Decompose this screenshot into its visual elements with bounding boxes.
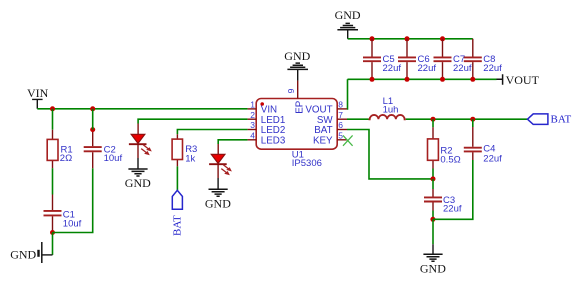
svg-text:GND: GND	[205, 196, 231, 210]
svg-text:GND: GND	[10, 248, 36, 262]
wire C4 bottom to C3 junction	[433, 160, 473, 219]
capacitor C2	[84, 130, 123, 169]
junction C5 top	[370, 36, 375, 41]
wire junction to ground bottom right	[432, 219, 434, 244]
svg-text:GND: GND	[284, 49, 310, 63]
svg-text:BAT: BAT	[551, 114, 572, 126]
capacitor C6	[398, 39, 436, 80]
capacitor C8	[464, 39, 502, 80]
svg-text:VOUT: VOUT	[506, 73, 540, 87]
no-connect X on KEY	[343, 135, 353, 145]
wire bottom capacitor rail	[348, 78, 497, 80]
junction R1/VIN rail	[50, 106, 55, 111]
svg-text:2Ω: 2Ω	[60, 153, 72, 164]
pin 6 BAT	[314, 120, 347, 136]
power flag GND left	[10, 242, 52, 263]
port BAT (right)	[528, 114, 572, 126]
svg-text:VIN: VIN	[27, 86, 49, 100]
svg-text:1uh: 1uh	[383, 104, 399, 115]
wire LED1 to pin2	[138, 119, 248, 123]
wire top capacitor rail	[348, 38, 473, 40]
svg-text:GND: GND	[125, 176, 151, 190]
svg-text:GND: GND	[420, 261, 446, 275]
svg-text:2: 2	[250, 110, 255, 120]
svg-text:IP5306: IP5306	[292, 158, 322, 169]
pin 7 SW	[317, 110, 347, 126]
svg-text:22uf: 22uf	[453, 63, 472, 74]
svg-text:0.5Ω: 0.5Ω	[440, 155, 460, 166]
wire SW pin to L1	[347, 118, 369, 120]
svg-text:KEY: KEY	[313, 135, 333, 146]
junction C3 bottom	[430, 217, 435, 222]
junction R2 top	[431, 117, 436, 122]
port BAT (bottom)	[172, 190, 184, 236]
ground bottom right	[420, 244, 446, 275]
svg-text:5: 5	[338, 131, 343, 141]
ground above EP	[284, 49, 310, 81]
wire BAT pin to R2 bottom junction	[347, 130, 433, 179]
svg-text:LED3: LED3	[261, 135, 286, 146]
svg-text:10uf: 10uf	[63, 218, 82, 229]
wire C1 junction down	[52, 233, 54, 255]
junction C5 bottom	[370, 77, 375, 82]
svg-text:10uf: 10uf	[104, 153, 123, 164]
svg-text:7: 7	[338, 110, 343, 120]
junction C4 top	[470, 117, 475, 122]
svg-text:8: 8	[338, 100, 343, 110]
svg-text:22uf: 22uf	[483, 153, 502, 164]
wire C2 lead upper green	[92, 109, 94, 130]
capacitor C4	[464, 119, 502, 164]
svg-text:9: 9	[286, 88, 296, 93]
ground below LED D1	[125, 158, 151, 190]
wire L1 to BAT port	[406, 118, 528, 120]
svg-text:22uf: 22uf	[443, 204, 462, 215]
wire C3 bottom	[432, 211, 434, 220]
svg-text:EP: EP	[294, 100, 305, 114]
wire LED2 to pin4	[218, 140, 247, 144]
wire R1 top lead	[52, 109, 54, 130]
wire R3 to BAT port	[176, 166, 178, 190]
pin 3 LED2	[248, 120, 286, 136]
svg-text:4: 4	[250, 131, 255, 141]
junction C7 top	[440, 36, 445, 41]
svg-text:3: 3	[250, 120, 255, 130]
wire VOUT pin riser	[346, 79, 349, 109]
svg-text:22uf: 22uf	[383, 63, 402, 74]
junction C7 bottom	[440, 77, 445, 82]
junction C6 top	[405, 36, 410, 41]
wire R1 to C1	[52, 168, 54, 194]
wire R2 bottom	[432, 169, 434, 179]
ground below LED D2	[205, 178, 231, 210]
pin 1 VIN	[248, 100, 278, 116]
op-amp U1 IP5306 body	[256, 99, 337, 170]
junction C1 bottom	[50, 230, 55, 235]
wire R3 to pin3	[177, 130, 247, 135]
wire VIN rail	[37, 108, 247, 110]
capacitor C5	[363, 39, 401, 80]
svg-text:GND: GND	[335, 8, 361, 22]
junction R2 bottom	[431, 176, 436, 181]
pin 5 KEY	[313, 131, 347, 147]
junction C2/VIN rail	[90, 106, 95, 111]
LED D1	[129, 124, 152, 159]
resistor R3	[172, 134, 197, 166]
svg-text:22uf: 22uf	[483, 63, 502, 74]
pin 2 LED1	[248, 110, 286, 126]
ground top right	[335, 8, 361, 39]
junction C6 bottom	[405, 77, 410, 82]
net flag VIN	[27, 86, 49, 109]
capacitor C7	[434, 39, 472, 80]
resistor R2	[428, 119, 461, 168]
svg-text:6: 6	[338, 120, 343, 130]
net flag VOUT	[497, 73, 540, 87]
svg-text:22uf: 22uf	[418, 63, 437, 74]
pin 9 EP	[286, 81, 305, 114]
svg-text:1: 1	[250, 100, 255, 110]
inductor L1	[369, 96, 406, 119]
wire bottom-left horizontal	[53, 168, 93, 232]
resistor R1	[47, 130, 72, 169]
pin 8 VOUT	[305, 100, 347, 116]
pin 4 LED3	[248, 131, 286, 147]
svg-text:1k: 1k	[185, 153, 195, 164]
LED D2	[209, 144, 232, 178]
capacitor C3	[424, 179, 462, 215]
junction C8 bottom	[470, 77, 475, 82]
capacitor C1	[44, 195, 82, 233]
junction dot on C2 lead	[90, 127, 95, 132]
svg-text:BAT: BAT	[172, 215, 184, 236]
